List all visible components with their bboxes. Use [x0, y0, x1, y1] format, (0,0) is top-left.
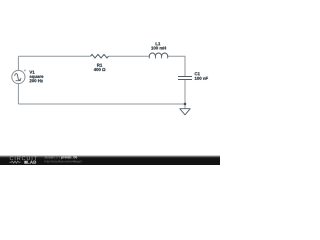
wire source bottom to bottom-left corner	[17, 84, 19, 105]
label L1 value	[151, 47, 166, 50]
wire bottom rail	[18, 103, 185, 105]
wire junction to ground	[184, 104, 186, 109]
label V1 frequency	[30, 79, 43, 82]
logo LAB wordmark	[27, 161, 36, 164]
watermark credit username	[45, 156, 60, 159]
inductor L1 legs	[149, 56, 167, 58]
wire capacitor to bottom junction	[184, 80, 186, 105]
label L1 name	[156, 42, 161, 45]
voltage source V1 square-wave glyph	[15, 74, 21, 81]
logo CIRCUIT wordmark	[10, 156, 37, 160]
wire between resistor and inductor	[109, 55, 150, 57]
wire top-left segment	[18, 55, 90, 57]
node junction	[184, 103, 186, 105]
watermark credit circuit name	[61, 156, 77, 159]
label V1 name	[29, 71, 34, 74]
voltage source V1 circle	[12, 70, 25, 83]
logo block	[24, 161, 27, 164]
label R1 name	[97, 64, 102, 67]
resistor R1	[91, 54, 109, 58]
label R1 value	[94, 68, 106, 71]
inductor L1	[149, 53, 167, 56]
label C1 name	[195, 72, 200, 75]
logo resistor squiggle	[9, 161, 20, 163]
watermark url line	[45, 160, 82, 163]
wire left riser (source top to top-left corner)	[17, 56, 19, 70]
ground	[180, 109, 190, 115]
label C1 value	[195, 77, 208, 80]
wire inductor to top-right corner and down	[168, 56, 185, 76]
capacitor C1	[178, 77, 192, 80]
label V1 type	[30, 76, 44, 79]
plus mark	[24, 69, 26, 71]
